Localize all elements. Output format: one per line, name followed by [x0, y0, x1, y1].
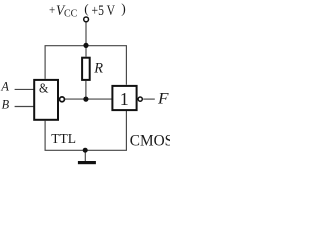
svg-text:1: 1 [120, 89, 129, 109]
svg-text:A: A [0, 80, 9, 94]
svg-text:(: ( [84, 1, 88, 16]
svg-text:R: R [93, 61, 103, 77]
svg-text:CC: CC [64, 9, 78, 20]
svg-text:+: + [49, 3, 55, 17]
svg-text:&: & [39, 82, 48, 97]
svg-text:F: F [157, 91, 169, 108]
svg-text:+5 V: +5 V [92, 3, 116, 19]
svg-text:): ) [121, 1, 126, 16]
svg-text:CMOS: CMOS [130, 132, 170, 149]
svg-text:TTL: TTL [51, 131, 76, 146]
svg-text:B: B [2, 98, 10, 112]
